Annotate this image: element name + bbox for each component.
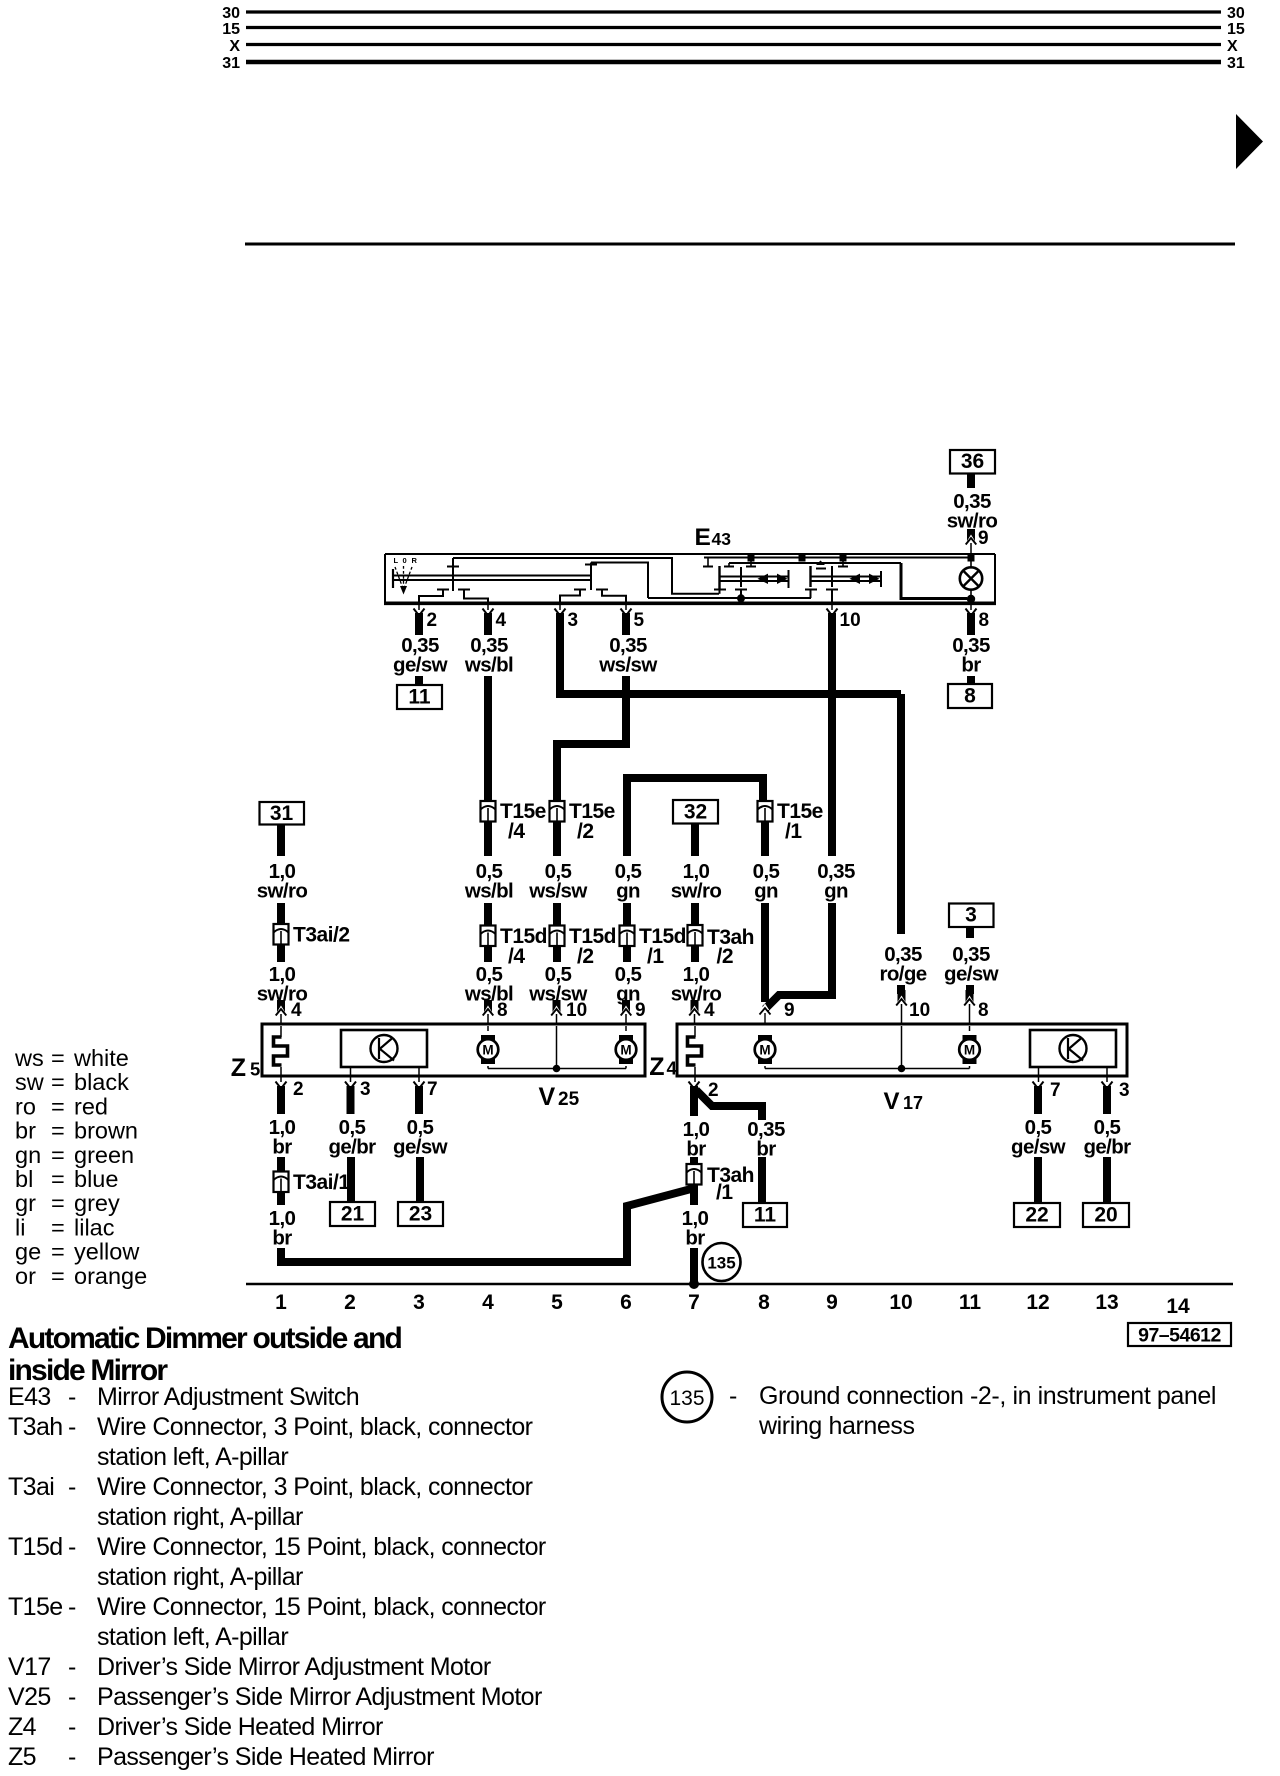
svg-text:8: 8 — [964, 685, 976, 708]
mirror adjustment switch E43 — [385, 553, 995, 602]
svg-text:/2: /2 — [717, 945, 734, 968]
pin 2 E43 — [418, 604, 420, 610]
svg-text:-: - — [68, 1743, 76, 1771]
svg-text:Wire Connector, 15 Point, blac: Wire Connector, 15 Point, black, connect… — [97, 1593, 546, 1621]
svg-text:-: - — [68, 1413, 76, 1441]
svg-text:135: 135 — [707, 1254, 735, 1273]
svg-text:8: 8 — [978, 1000, 989, 1021]
svg-text:lilac: lilac — [74, 1214, 115, 1240]
svg-text:21: 21 — [341, 1203, 365, 1226]
svg-text:31: 31 — [222, 55, 240, 72]
svg-text:R: R — [412, 556, 418, 565]
wire 0,35 ge/sw (box3) — [966, 927, 974, 938]
connector T15e/1 — [758, 801, 773, 822]
pin 4 V25 — [277, 1000, 285, 1012]
bus 15 — [246, 26, 1221, 29]
pin 2 V25 — [276, 1082, 287, 1089]
svg-text:32: 32 — [684, 801, 707, 824]
svg-text:22: 22 — [1025, 1204, 1048, 1227]
svg-text:-: - — [68, 1683, 76, 1711]
heated mirror Z5 — [280, 1026, 282, 1037]
pin 4 V17 — [691, 1000, 699, 1012]
bus 30 — [246, 10, 1221, 13]
svg-text:-: - — [68, 1653, 76, 1681]
svg-text:V25: V25 — [8, 1683, 51, 1711]
wire 0,35 gn (E43 pin10) — [828, 635, 836, 856]
svg-text:11: 11 — [408, 686, 431, 709]
svg-text:X: X — [229, 38, 240, 55]
E43 wire contact1 to poti rail — [453, 558, 719, 594]
svg-text:or: or — [15, 1263, 36, 1289]
pin 3 E43 — [559, 604, 561, 610]
svg-text:M: M — [482, 1043, 493, 1058]
svg-text:grey: grey — [74, 1190, 120, 1216]
connector T3ai/1 — [274, 1172, 289, 1193]
ground 135 legend — [662, 1372, 712, 1422]
svg-text:li: li — [15, 1214, 25, 1240]
E43 potentiometer 2 — [809, 566, 811, 587]
svg-text:13: 13 — [1095, 1291, 1118, 1314]
svg-text:V17: V17 — [8, 1653, 51, 1681]
svg-text:-: - — [68, 1533, 76, 1561]
svg-text:station right, A-pillar: station right, A-pillar — [97, 1563, 303, 1591]
svg-text:=: = — [51, 1142, 65, 1168]
ground junction dot — [689, 1279, 699, 1289]
pin 8 V17 — [966, 985, 974, 994]
terminal box 21 — [330, 1202, 375, 1226]
svg-text:yellow: yellow — [74, 1239, 140, 1265]
svg-text:9: 9 — [978, 528, 989, 549]
svg-text:black: black — [74, 1069, 129, 1095]
wire E43 pin3 to V17 pin10 run — [560, 635, 901, 694]
svg-text:-: - — [68, 1473, 76, 1501]
svg-text:gn: gn — [616, 880, 640, 903]
svg-text:br: br — [272, 1136, 292, 1159]
svg-text:T15d: T15d — [8, 1533, 63, 1561]
terminal box 8 — [948, 684, 992, 708]
svg-text:gn: gn — [824, 880, 848, 903]
E43 terminal stub on line B — [707, 558, 709, 567]
svg-text:ge/sw: ge/sw — [393, 654, 448, 677]
svg-text:Wire Connector, 15 Point, blac: Wire Connector, 15 Point, black, connect… — [97, 1533, 546, 1561]
svg-text:3: 3 — [965, 904, 977, 927]
svg-text:17: 17 — [903, 1093, 923, 1113]
svg-text:10: 10 — [889, 1291, 912, 1314]
svg-text:10: 10 — [840, 610, 861, 631]
wire 1,0 sw/ro (box32) — [691, 824, 699, 857]
diagram number box — [1128, 1323, 1231, 1346]
pin 9 E43 — [967, 529, 975, 541]
svg-text:/2: /2 — [577, 945, 594, 968]
svg-text:7: 7 — [1050, 1080, 1061, 1101]
wire 1,0 br to ground run — [277, 1192, 285, 1205]
wire 0,5 ge/sw (V17 pin7) — [1033, 1082, 1044, 1089]
svg-text:gn: gn — [15, 1142, 41, 1168]
wire 0,5 ws/bl — [484, 822, 492, 857]
E43 contact pin5 — [596, 589, 608, 591]
svg-text:ge/sw: ge/sw — [944, 963, 999, 986]
svg-text:Driver’s Side Mirror Adjustmen: Driver’s Side Mirror Adjustment Motor — [97, 1653, 491, 1681]
wire 1,0 sw/ro (box31) — [277, 825, 285, 857]
V17 bottom pins leads — [694, 1067, 696, 1082]
bottom rail line — [246, 1283, 1233, 1286]
wire 0,5 gn lower — [623, 946, 631, 962]
K unit in V25 — [341, 1030, 427, 1067]
svg-text:3: 3 — [568, 610, 579, 631]
svg-text:9: 9 — [635, 1000, 646, 1021]
pin 4 E43 — [487, 604, 489, 610]
heated mirror Z4 — [694, 1026, 696, 1037]
svg-text:31: 31 — [270, 802, 294, 825]
svg-text:ws/sw: ws/sw — [598, 654, 657, 677]
svg-text:ge/sw: ge/sw — [393, 1136, 448, 1159]
connector T15d/2 — [550, 926, 565, 947]
svg-text:white: white — [73, 1045, 129, 1071]
svg-text:ws: ws — [14, 1045, 44, 1071]
svg-text:3: 3 — [360, 1079, 371, 1100]
svg-text:br: br — [961, 654, 981, 677]
V17 internal wiring — [764, 1066, 766, 1069]
E43 switch contact 1 — [452, 558, 454, 591]
svg-text:2: 2 — [427, 610, 438, 631]
E43 internal rail — [648, 597, 811, 599]
svg-text:Mirror Adjustment Switch: Mirror Adjustment Switch — [97, 1383, 359, 1411]
pin 10 E43 — [831, 604, 833, 610]
passenger mirror adjustment motor V25 — [262, 1024, 645, 1076]
svg-text:sw: sw — [15, 1069, 45, 1095]
svg-text:10: 10 — [566, 1000, 587, 1021]
svg-text:red: red — [74, 1093, 108, 1119]
svg-text:8: 8 — [497, 1000, 508, 1021]
terminal box 3 — [949, 904, 994, 928]
svg-text:E43: E43 — [8, 1383, 51, 1411]
svg-text:15: 15 — [1227, 21, 1245, 38]
svg-text:Wire Connector, 3 Point, black: Wire Connector, 3 Point, black, connecto… — [97, 1413, 533, 1441]
svg-text:-: - — [68, 1713, 76, 1741]
svg-text:L: L — [394, 556, 399, 565]
terminal box 11 (top) — [397, 685, 442, 709]
svg-text:5: 5 — [250, 1059, 260, 1080]
V25 bottom pins leads — [350, 1067, 352, 1082]
svg-text:T3ah: T3ah — [8, 1413, 63, 1441]
svg-text:T15e: T15e — [8, 1593, 63, 1621]
svg-text:7: 7 — [688, 1291, 700, 1314]
bus 31 — [246, 60, 1221, 65]
wire loop 0,5 gn — [627, 778, 763, 856]
svg-text:gr: gr — [15, 1190, 36, 1216]
svg-text:12: 12 — [1026, 1291, 1049, 1314]
wire 0,5 ws/bl lower — [484, 946, 492, 962]
wire 1,0 sw/ro to V25 pin4 — [277, 945, 285, 963]
svg-text:Passenger’s Side Heated Mirror: Passenger’s Side Heated Mirror — [97, 1743, 434, 1771]
pin 5 E43 — [625, 604, 627, 610]
wire 0,5 gn to V17 pin9 — [761, 822, 769, 857]
svg-text:=: = — [51, 1190, 65, 1216]
svg-text:8: 8 — [979, 610, 990, 631]
svg-text:7: 7 — [427, 1079, 438, 1100]
svg-text:5: 5 — [551, 1291, 563, 1314]
svg-text:Z: Z — [649, 1053, 664, 1081]
E43 contact pin3 — [574, 589, 586, 591]
svg-text:ge/br: ge/br — [328, 1136, 376, 1159]
E43 lamp junction dot — [967, 595, 975, 603]
svg-text:=: = — [51, 1214, 65, 1240]
E43 poti2 left contact to rail — [805, 589, 817, 591]
svg-text:135: 135 — [669, 1387, 704, 1410]
svg-text:ge: ge — [15, 1239, 41, 1265]
E43 top line B — [704, 557, 971, 559]
svg-text:3: 3 — [413, 1291, 425, 1314]
E43 switch bar — [392, 569, 394, 588]
connector T15e/4 — [481, 801, 496, 822]
wire 0,5 ge/br (V17 pin3) — [1102, 1082, 1113, 1089]
E43 contact pin2 — [437, 589, 449, 591]
connector T3ah/2 — [688, 925, 703, 946]
wire 1,0 sw/ro to V17 pin4 — [691, 946, 699, 963]
connector T15d/4 — [481, 926, 496, 947]
pin 2 V17 — [689, 1082, 700, 1089]
svg-text:4: 4 — [496, 610, 507, 631]
svg-text:/1: /1 — [785, 820, 802, 843]
ground symbol 135 — [703, 1243, 741, 1281]
svg-text:blue: blue — [74, 1166, 118, 1192]
svg-text:4: 4 — [291, 1000, 302, 1021]
E43 stub line1 to contact x750 — [750, 561, 752, 566]
svg-text:10: 10 — [909, 1000, 930, 1021]
svg-text:8: 8 — [758, 1291, 770, 1314]
E43 junction squares — [748, 555, 755, 562]
V25 internal wiring — [487, 1026, 489, 1031]
svg-text:ge/sw: ge/sw — [1011, 1136, 1066, 1159]
E43 poti1 wiper — [740, 567, 742, 587]
motor symbols in V17 — [758, 1035, 772, 1041]
svg-text:/1: /1 — [716, 1181, 733, 1204]
pin 7 V25 — [414, 1082, 425, 1089]
svg-text:br: br — [272, 1227, 292, 1250]
svg-text:23: 23 — [409, 1203, 432, 1226]
separator line — [245, 243, 1235, 246]
svg-text:4: 4 — [482, 1291, 494, 1314]
svg-text:2: 2 — [344, 1291, 356, 1314]
svg-text:ge/br: ge/br — [1083, 1136, 1131, 1159]
svg-text:ws/bl: ws/bl — [464, 654, 513, 677]
svg-text:1: 1 — [275, 1291, 287, 1314]
svg-text:station right, A-pillar: station right, A-pillar — [97, 1503, 303, 1531]
terminal box 20 — [1083, 1203, 1129, 1227]
E43 potentiometer 1 — [718, 566, 720, 589]
svg-text:/1: /1 — [647, 945, 664, 968]
pin 8 V25 — [484, 1000, 492, 1012]
svg-text:Ground connection -2-, in inst: Ground connection -2-, in instrument pan… — [759, 1382, 1216, 1410]
svg-text:3: 3 — [1119, 1080, 1130, 1101]
E43 contact pin4 — [458, 589, 470, 591]
svg-text:0: 0 — [403, 556, 407, 565]
svg-text:9: 9 — [826, 1291, 838, 1314]
svg-text:=: = — [51, 1166, 65, 1192]
svg-text:wiring harness: wiring harness — [758, 1412, 915, 1440]
svg-text:br: br — [685, 1227, 705, 1250]
svg-text:-: - — [68, 1593, 76, 1621]
svg-text:=: = — [51, 1093, 65, 1119]
terminal box 32 — [673, 800, 718, 824]
svg-text:station left, A-pillar: station left, A-pillar — [97, 1623, 288, 1651]
connector T15d/1 — [620, 926, 635, 947]
svg-text:6: 6 — [620, 1291, 632, 1314]
svg-text:Z4: Z4 — [8, 1713, 37, 1741]
wire 0,35 ro/ge — [897, 694, 905, 934]
E43 poti2 wiper to pin 10 — [831, 566, 833, 587]
E43 wire contact2 to rail — [591, 563, 648, 599]
svg-text:-: - — [68, 1383, 76, 1411]
svg-text:36: 36 — [961, 450, 984, 473]
svg-text:M: M — [620, 1043, 631, 1058]
E43 stub x843 — [842, 561, 844, 566]
svg-text:bl: bl — [15, 1166, 33, 1192]
svg-text:15: 15 — [222, 21, 240, 38]
wire 0,5 ws/sw — [553, 822, 561, 857]
svg-text:/2: /2 — [577, 820, 594, 843]
svg-text:31: 31 — [1227, 55, 1245, 72]
svg-text:9: 9 — [784, 1000, 795, 1021]
svg-text:T3ai: T3ai — [8, 1473, 54, 1501]
pin 8 E43 — [970, 604, 972, 610]
terminal box 23 — [398, 1202, 443, 1226]
svg-text:30: 30 — [222, 5, 240, 22]
motor symbols in V25 — [481, 1035, 495, 1041]
svg-text:X: X — [1227, 38, 1238, 55]
svg-text:sw/ro: sw/ro — [257, 880, 308, 903]
svg-text:4: 4 — [667, 1058, 678, 1079]
E43 line2 drop to lamp rail — [901, 563, 967, 599]
pin 9 V25 — [622, 1000, 630, 1012]
terminal box 11 (bottom) — [743, 1203, 787, 1227]
svg-text:=: = — [51, 1263, 65, 1289]
svg-text:/4: /4 — [508, 945, 525, 968]
E43 poti1 left contact — [714, 589, 726, 591]
svg-text:=: = — [51, 1239, 65, 1265]
connector T3ah/1 — [687, 1164, 702, 1185]
wire 1,0 br / 0,35 br split — [690, 1086, 698, 1116]
K unit in V17 — [1030, 1030, 1116, 1067]
svg-text:Z: Z — [231, 1054, 246, 1082]
connector T15e/2 — [550, 801, 565, 822]
svg-text:ro: ro — [15, 1093, 36, 1119]
continuation arrow — [1236, 114, 1263, 169]
svg-text:97–54612: 97–54612 — [1138, 1325, 1221, 1347]
svg-text:11: 11 — [754, 1204, 777, 1227]
pin 10 V17 — [897, 985, 905, 994]
wire 0,5 ws/sw lower — [553, 946, 561, 962]
svg-text:station left, A-pillar: station left, A-pillar — [97, 1443, 288, 1471]
svg-text:=: = — [51, 1118, 65, 1144]
connector T3ai/2 — [274, 924, 289, 945]
svg-text:-: - — [729, 1382, 737, 1410]
pin 9 V17 — [761, 1004, 769, 1011]
E43 switch contact 2 — [590, 563, 592, 591]
svg-text:2: 2 — [708, 1080, 719, 1101]
svg-text:V: V — [884, 1088, 900, 1115]
svg-text:11: 11 — [959, 1291, 982, 1314]
svg-text:ws/sw: ws/sw — [528, 880, 587, 903]
svg-text:2: 2 — [293, 1079, 304, 1100]
pin 3 V25 — [345, 1082, 356, 1089]
svg-text:orange: orange — [74, 1263, 147, 1289]
svg-text:ws/bl: ws/bl — [464, 880, 513, 903]
lamp in E43 — [970, 560, 972, 567]
svg-text:5: 5 — [634, 610, 645, 631]
svg-text:14: 14 — [1166, 1295, 1190, 1318]
svg-text:4: 4 — [704, 1000, 715, 1021]
svg-text:T3ai/1: T3ai/1 — [293, 1171, 350, 1194]
E43 contact diamond x820 — [816, 561, 825, 566]
svg-text:Automatic Dimmer outside and: Automatic Dimmer outside and — [8, 1322, 401, 1355]
svg-text:M: M — [964, 1043, 975, 1058]
E43 poti1 junction dot — [737, 594, 745, 602]
svg-text:Z5: Z5 — [8, 1743, 36, 1771]
svg-text:V: V — [539, 1083, 556, 1111]
svg-text:E: E — [695, 524, 711, 551]
svg-text:30: 30 — [1227, 5, 1245, 22]
svg-text:43: 43 — [712, 529, 732, 549]
svg-text:T3ai/2: T3ai/2 — [293, 924, 350, 947]
svg-text:/4: /4 — [508, 820, 525, 843]
svg-text:=: = — [51, 1045, 65, 1071]
svg-text:ro/ge: ro/ge — [879, 963, 926, 986]
svg-text:M: M — [759, 1043, 770, 1058]
svg-text:gn: gn — [754, 880, 778, 903]
svg-text:20: 20 — [1094, 1204, 1117, 1227]
svg-text:Wire Connector, 3 Point, black: Wire Connector, 3 Point, black, connecto… — [97, 1473, 533, 1501]
svg-text:brown: brown — [74, 1118, 138, 1144]
svg-text:=: = — [51, 1069, 65, 1095]
svg-text:br: br — [15, 1118, 36, 1144]
svg-text:sw/ro: sw/ro — [671, 880, 722, 903]
svg-text:Driver’s Side Heated Mirror: Driver’s Side Heated Mirror — [97, 1713, 383, 1741]
svg-text:Passenger’s Side Mirror Adjust: Passenger’s Side Mirror Adjustment Motor — [97, 1683, 542, 1711]
svg-text:25: 25 — [558, 1089, 580, 1110]
wire 0,35 sw/ro to pin 9 — [967, 474, 975, 488]
driver mirror adjustment motor V17 — [677, 1024, 1127, 1076]
terminal box 31 — [260, 802, 305, 825]
E43 line 2 — [729, 562, 901, 564]
terminal box 22 — [1014, 1203, 1060, 1227]
terminal box 36 — [950, 450, 995, 474]
pin 10 V25 — [553, 1000, 561, 1012]
svg-text:green: green — [74, 1142, 134, 1168]
bus X — [246, 43, 1221, 46]
wire 1,0 br to ground — [690, 1185, 698, 1206]
